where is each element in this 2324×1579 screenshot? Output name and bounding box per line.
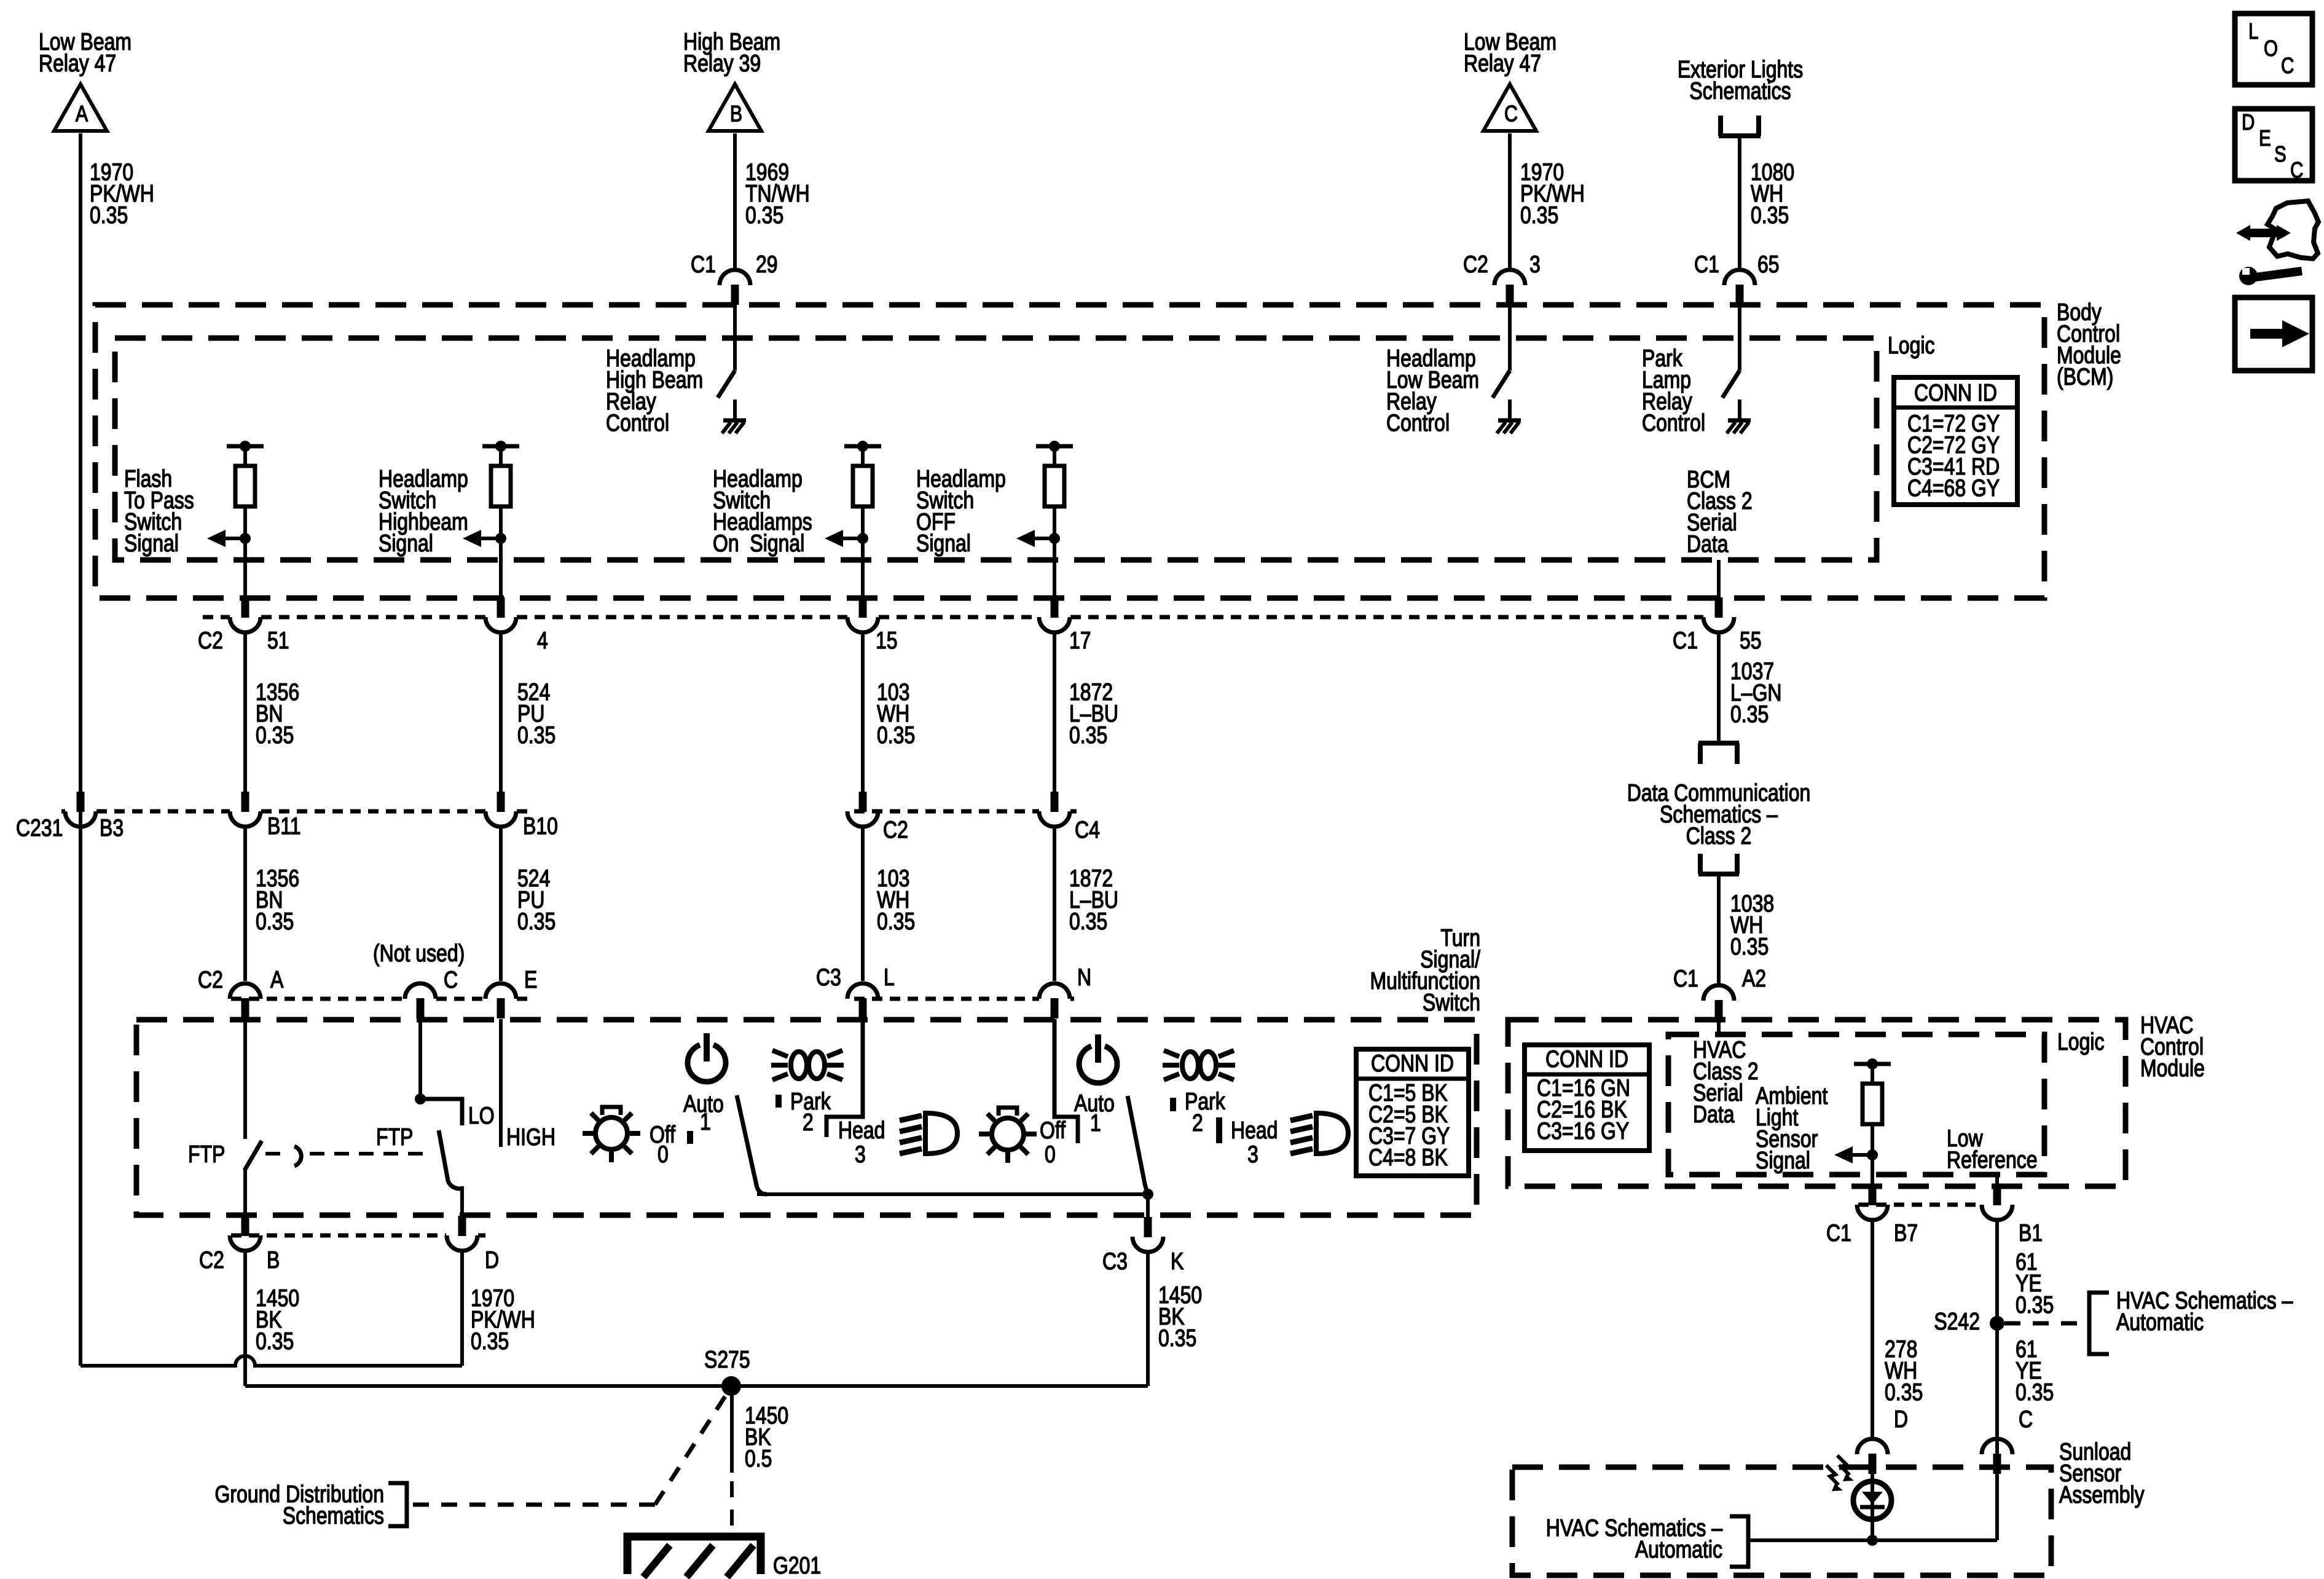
off-page bracket from Data Communication [1698,854,1739,874]
wire label 1970 PK/WH 0.35 (D) [471,1285,535,1355]
wire label 1872 L-BU 0.35 lower [1069,865,1118,935]
wire C into switch [418,1019,422,1099]
connector C1 pin 55 [1703,597,1734,632]
wire 103 WH lower [861,827,865,981]
label G201 [773,1552,821,1579]
wire 61 YE lower [1995,1323,1999,1439]
off-page bracket to Data Communication [1698,743,1739,764]
off-page bracket Exterior Lights [1719,116,1761,136]
photodiode light arrows [1826,1455,1854,1491]
wire D to A horizontal [80,1356,462,1366]
svg-text:3: 3 [855,1141,866,1168]
wire resistor to connector x=399 [243,506,247,598]
label S242 [1934,1308,1980,1335]
svg-text:C: C [2281,53,2294,77]
wire 1450 BK (B) [243,1251,247,1386]
pin label C1 55 [1673,627,1762,654]
pull-up resistor at x=1404 [844,441,881,506]
svg-text:S275: S275 [704,1346,750,1373]
label Body Control Module (BCM) [2057,299,2121,390]
label HVAC Control Module [2140,1012,2205,1082]
wire 1872 L-BU lower [1053,827,1056,981]
signal arrow at x=1716 [1016,530,1060,547]
label (Not used) [373,940,465,967]
switch low beam relay control [1493,371,1510,398]
contact tick park c2 [1170,1098,1176,1111]
wire 1969 TN/WH triangle B down [733,133,737,271]
photodiode diode symbol [1860,1492,1885,1507]
label Ambient Light Sensor Signal [1756,1082,1827,1174]
half bracket HVAC Schematics (sunload) [1730,1516,1748,1567]
wire 1450 BK 0.5 to ground [730,1386,734,1534]
connector C231 pin B10 [485,792,516,827]
svg-text:B11: B11 [267,813,301,840]
wire 1080 WH from exterior lights bracket [1738,136,1741,271]
svg-text:FTP: FTP [188,1141,225,1168]
pull-up resistor at x=1716 [1036,441,1073,506]
Turn Signal/Multifunction Switch dashed box [136,1020,1477,1215]
wire L into switch + head contact [826,1019,863,1137]
connector C231 pin B3 [65,792,96,827]
rotary blade cluster2 [1128,1096,1148,1194]
connector pin B1 [1982,1185,2012,1220]
svg-text:C2: C2 [199,1246,224,1274]
pin label C3 K [1102,1248,1184,1275]
svg-text:C231: C231 [16,814,63,841]
svg-text:C1: C1 [1673,965,1698,992]
wire 61 YE upper [1995,1220,1999,1323]
signal arrow at x=399 [207,530,251,547]
svg-text:15: 15 [876,627,898,654]
label Low Beam Relay 47 (C) [1464,28,1557,77]
label Headlamp Switch Headlamps On Signal [713,465,812,557]
connector pin N [1039,983,1070,1018]
label Auto 1 cluster1 [683,1090,724,1135]
label Park 2 cluster1 [790,1088,831,1136]
wire BCM serial data to connector [1717,560,1721,598]
pin label C1 B7 [1826,1219,1918,1246]
label Flash To Pass Switch Signal [124,465,194,557]
pin label D [485,1246,499,1274]
svg-text:S: S [2274,141,2287,166]
HVAC Logic inner dashed box [1668,1034,2044,1175]
Body Control Module outer dashed box [95,305,2044,598]
pin label C2 A [198,966,284,993]
wire label 1450 BK 0.5 [745,1402,788,1472]
label Low Beam Relay 47 (A) [39,28,132,77]
wire K to connector [1146,1194,1150,1218]
label BCM Class 2 Serial Data [1687,466,1753,557]
connector pin C2 (switch) [847,792,878,827]
pin label B11 [267,813,301,840]
rotary blade cluster1 [737,1095,767,1194]
svg-text:(Not used): (Not used) [373,940,465,967]
wire A into switch [243,1019,247,1139]
svg-text:D: D [485,1246,499,1274]
connector C1 pin 29 (BCM) [720,270,750,305]
pin label B10 [523,813,558,840]
wire 524 PU lower [499,827,503,981]
svg-text:Park: Park [1185,1088,1225,1115]
svg-text:B10: B10 [523,813,558,840]
svg-text:D: D [2242,109,2255,134]
svg-text:A: A [76,101,88,127]
wire label 61 YE 0.35 upper [2016,1248,2054,1318]
svg-text:1: 1 [700,1108,711,1135]
svg-text:C1: C1 [1673,627,1698,654]
wire label 1080 WH 0.35 [1751,159,1794,229]
pin label D (sunload) [1894,1406,1908,1433]
connector C2 pin A [230,983,261,1018]
wire label 1970 PK/WH 0.35 (C) [1520,159,1585,229]
wire to HVAC A2 connector [1717,983,1721,986]
wire label 61 YE 0.35 lower [2016,1336,2054,1406]
pin label C1 A2 [1673,965,1766,992]
label C231 [16,814,63,841]
CONN ID table (switch) [1356,1049,1469,1176]
headlamp beam icon cluster1 [900,1113,957,1154]
svg-text:E: E [524,966,537,993]
svg-text:B7: B7 [1894,1219,1918,1246]
label Head 3 cluster2 [1231,1117,1278,1168]
svg-text:CONN ID: CONN ID [1545,1045,1628,1073]
wire blade to connector B [243,1169,247,1216]
label HVAC Schematics Automatic (S242) [2116,1287,2293,1336]
double arrow icon [2236,225,2291,241]
HVAC connector dotted line [1858,1203,1981,1207]
svg-text:55: 55 [1740,627,1762,654]
label LO [468,1102,495,1129]
connector C231 dotted line [61,809,1077,814]
pin label C2 (switch) [883,816,908,843]
label Logic (BCM) [1888,332,1934,359]
svg-text:C2: C2 [883,816,908,843]
LO contact [420,1099,462,1125]
wire label 1450 BK 0.35 (K) [1158,1282,1202,1352]
pin label N [1077,964,1091,991]
label S275 [704,1346,750,1373]
svg-text:0: 0 [658,1141,669,1168]
svg-text:C: C [444,966,458,993]
contact tick off c1 [687,1131,693,1144]
svg-text:N: N [1077,964,1091,991]
svg-text:3: 3 [1529,251,1541,278]
CONN ID table (HVAC) [1525,1045,1649,1151]
wire resistor to connector x=815 [499,506,503,598]
svg-text:C1: C1 [1694,251,1719,278]
connector pin C4 (switch) [1039,792,1070,827]
svg-text:103WH0.35: 103WH0.35 [877,865,915,935]
svg-text:2: 2 [803,1109,814,1136]
splice S275 [721,1376,741,1396]
svg-text:LO: LO [468,1102,495,1129]
svg-text:C3: C3 [1102,1248,1128,1275]
svg-text:G201: G201 [773,1552,821,1579]
wire label 103 WH 0.35 upper [877,679,915,749]
label FTP (right) [376,1124,413,1151]
connector pin 4 [485,597,516,632]
connector pin C (sunload) [1982,1439,2012,1474]
dial icon (off) cluster1 [583,1107,640,1162]
pin label C1 65 [1694,251,1780,278]
svg-text:C1=72 GYC2=72 GYC3=41 RDC4=68: C1=72 GYC2=72 GYC3=41 RDC4=68 GY [1907,410,2000,502]
svg-text:65: 65 [1757,251,1780,278]
switch high beam relay control [718,371,735,398]
B-D connector dotted line [231,1234,485,1238]
pull-up resistor at x=815 [482,441,519,506]
label Park 2 cluster2 [1185,1088,1225,1136]
label Turn Signal/Multifunction Switch [1370,924,1481,1016]
switch park lamp relay control [1722,371,1740,398]
label Exterior Lights Schematics [1678,56,1803,104]
power symbol cluster1 [688,1033,726,1082]
pin label 17 [1069,627,1091,654]
label Sunload Sensor Assembly [2059,1438,2145,1508]
wire 1037 L-GN serial data [1717,632,1721,745]
svg-text:C3: C3 [816,964,841,991]
wire label 103 WH 0.35 lower [877,865,915,935]
svg-text:C: C [1504,101,1518,127]
wire ambient to connector [1871,1175,1874,1189]
ambient light sensor resistor [1854,1058,1891,1124]
off-page reference triangle B (High Beam Relay 39) [709,84,761,131]
svg-text:C2: C2 [1463,251,1488,278]
park lamps icon cluster2 [1163,1050,1235,1080]
label Headlamp Switch Highbeam Signal [379,465,468,557]
HVAC outer dashed box [1508,1020,2126,1186]
wire 524 PU upper [499,632,503,792]
switch output horizontal wire [757,1192,1148,1196]
wire label 1038 WH 0.35 [1730,890,1774,960]
svg-text:0: 0 [1045,1141,1056,1168]
connector C1 pin 65 (BCM) [1724,270,1755,305]
svg-text:3: 3 [1247,1141,1258,1168]
svg-text:K: K [1171,1248,1184,1275]
connector C3 pin L [847,983,878,1018]
half bracket HVAC Schematics (S242) [2089,1293,2109,1354]
connector pin 15 [847,597,878,632]
wire B to K horizontal via S275 [245,1384,1148,1388]
svg-text:B: B [267,1246,280,1274]
ground stub low beam [1508,400,1512,419]
pin label C4 (switch) [1075,816,1100,843]
svg-text:Exterior LightsSchematics: Exterior LightsSchematics [1678,56,1803,104]
svg-text:HeadlampSwitchHeadlampsOn Sig: HeadlampSwitchHeadlampsOn Signal [713,465,812,557]
svg-text:C: C [2019,1406,2033,1433]
svg-text:A2: A2 [1742,965,1766,992]
mechanical link chevron [294,1146,301,1166]
svg-text:B: B [730,101,742,127]
ground symbol high beam [722,420,746,433]
signal arrow at x=815 [463,530,506,547]
wire into BCM (high beam relay control) [733,305,737,371]
wire label 524 PU 0.35 lower [517,865,555,935]
label Off 0 cluster1 [650,1121,675,1168]
pin label B1 [2019,1219,2043,1246]
junction dot sunload [1867,1535,1878,1546]
pin label C1 29 [691,251,778,278]
park lamps icon cluster1 [771,1050,844,1080]
contact tick park c1 [775,1095,782,1108]
wire label 524 PU 0.35 upper [517,679,555,749]
wire into photodiode [1871,1473,1874,1540]
LOC box [2235,14,2312,85]
wire 278 WH [1871,1220,1874,1439]
svg-text:A: A [270,966,284,993]
wire blade to connector D [460,1186,464,1216]
wire label 1037 L-GN 0.35 [1730,658,1782,728]
junction dot FTP2 [415,1093,426,1105]
connector pin C (not used) [405,983,436,1018]
wire A2 pin into logic box [1717,1020,1721,1034]
wire 1356 BN upper [243,632,247,792]
wire resistor to connector x=1404 [861,506,865,598]
wire 1872 L-BU upper [1053,632,1056,792]
CONN ID table (BCM) [1894,377,2017,505]
svg-text:CONN ID: CONN ID [1371,1050,1454,1077]
label park lamp relay control [1642,345,1705,436]
pin label 15 [876,627,898,654]
power symbol cluster2 [1079,1034,1117,1083]
mechanical link dashed [265,1152,426,1156]
wire label 1356 BN 0.35 upper [256,679,299,749]
ground G201 symbol [627,1537,761,1577]
svg-text:51: 51 [267,627,289,654]
svg-text:Logic: Logic [2057,1028,2104,1055]
connector C231 pin B11 [230,792,261,827]
wire 1970 PK/WH triangle C down [1508,133,1512,271]
svg-text:103WH0.35: 103WH0.35 [877,679,915,749]
wire E into switch (HIGH) [499,1019,503,1147]
wire 1970 PK/WH (D) [460,1251,464,1366]
dashed reference line to Ground Distribution [413,1396,725,1505]
svg-text:Head: Head [838,1117,885,1144]
label Headlamp Switch OFF Signal [916,465,1006,557]
svg-text:CONN ID: CONN ID [1914,379,1997,406]
svg-text:HIGH: HIGH [506,1124,555,1151]
label HVAC Class 2 Serial Data [1693,1036,1759,1128]
svg-text:L: L [2248,18,2258,43]
wire 1356 BN lower [243,827,247,981]
FTP switch blade (left) [245,1141,262,1170]
Sunload Sensor Assembly dashed box [1512,1467,2051,1575]
pin label 4 [537,627,548,654]
wire resistor to arrow (ambient) [1871,1124,1874,1175]
wire into BCM (park lamp relay control) [1738,305,1741,371]
pull-up resistor at x=399 [227,441,264,506]
svg-text:C2: C2 [198,966,223,993]
connector C2 pin B [230,1216,261,1251]
label Auto 1 cluster2 [1074,1090,1115,1136]
connector C1 pin A2 (HVAC) [1703,985,1734,1020]
label high beam relay control [606,345,703,436]
wire resistor to connector x=1716 [1053,506,1056,598]
connector pin D [447,1216,477,1251]
label FTP (left) [188,1141,225,1168]
svg-text:C: C [2290,157,2303,182]
svg-text:Logic: Logic [1888,332,1934,359]
svg-text:C4: C4 [1075,816,1100,843]
connector pin D (sunload) [1857,1439,1888,1474]
svg-text:Head: Head [1231,1117,1278,1144]
label Data Communication Schematics Class 2 [1627,779,1811,849]
label Ground Distribution Schematics [215,1481,384,1529]
label Head 3 cluster1 [838,1117,885,1168]
arrow box [2235,297,2312,371]
wire label 1969 TN/WH 0.35 [745,159,810,229]
off-page reference triangle A (Low Beam Relay 47) [54,84,107,131]
svg-text:C1: C1 [1826,1219,1851,1246]
splice S242 [1990,1316,2004,1331]
pin label C2 B [199,1246,280,1274]
svg-text:C1: C1 [691,251,716,278]
wire into BCM (low beam relay control) [1508,305,1512,371]
connector C3 pin K [1133,1217,1163,1252]
wire 1970 PK/WH triangle A down [79,133,82,1366]
wire label 278 WH 0.35 [1885,1336,1923,1406]
label low beam relay control [1386,345,1479,436]
sunload bottom wire [1749,1439,1997,1540]
svg-text:1: 1 [1090,1109,1101,1136]
pin label C2 3 [1463,251,1541,278]
svg-text:278WH0.35: 278WH0.35 [1885,1336,1923,1406]
half bracket Ground Distribution [388,1483,407,1526]
wire 103 WH upper [861,632,865,792]
svg-text:2: 2 [1192,1109,1203,1136]
BCM bottom connector dotted line [203,615,1703,620]
connector pin 17 [1039,597,1070,632]
wire label 1450 BK 0.35 (B) [256,1285,299,1355]
connector C2 pin 3 (BCM) [1494,270,1525,305]
wire label 1970 PK/WH 0.35 (A) [90,159,154,229]
svg-text:Off: Off [1040,1117,1066,1144]
vehicle outline icon [2267,201,2318,259]
label High Beam Relay 39 [683,28,780,77]
pin label C (sunload) [2019,1406,2033,1433]
wire 1038 WH [1717,874,1721,985]
label Logic (HVAC) [2057,1028,2104,1055]
svg-text:B3: B3 [100,814,124,841]
switch top connector dotted line [231,997,1074,1001]
label Off 0 cluster2 [1040,1117,1066,1168]
svg-text:B1: B1 [2019,1219,2043,1246]
svg-text:4: 4 [537,627,548,654]
wire low reference inside box [1995,1175,1999,1189]
BCM Logic inner dashed box [115,338,1877,560]
ground stub park lamp [1738,400,1741,419]
dashed reference to HVAC Schematics [2004,1321,2084,1326]
pin label C [444,966,458,993]
wire label 1872 L-BU 0.35 upper [1069,679,1118,749]
wire 1450 BK (K) [1146,1252,1150,1386]
label Low Reference [1947,1125,2038,1173]
ground symbol low beam [1497,420,1521,433]
wire label 1356 BN 0.35 lower [256,865,299,935]
connector C2 pin 51 [230,597,261,632]
label HVAC Schematics Automatic (sunload) [1546,1514,1722,1563]
pin label C3 L [816,964,895,991]
label HIGH [506,1124,555,1151]
wrench icon [2239,267,2302,285]
svg-text:C2: C2 [198,627,223,654]
ambient signal arrow [1834,1146,1878,1164]
svg-text:D: D [1894,1406,1908,1433]
wire N into switch + auto contact [1054,1019,1078,1143]
pin label E [524,966,537,993]
DESC box [2235,109,2312,183]
svg-text:S242: S242 [1934,1308,1980,1335]
ground symbol park lamp [1727,420,1751,433]
